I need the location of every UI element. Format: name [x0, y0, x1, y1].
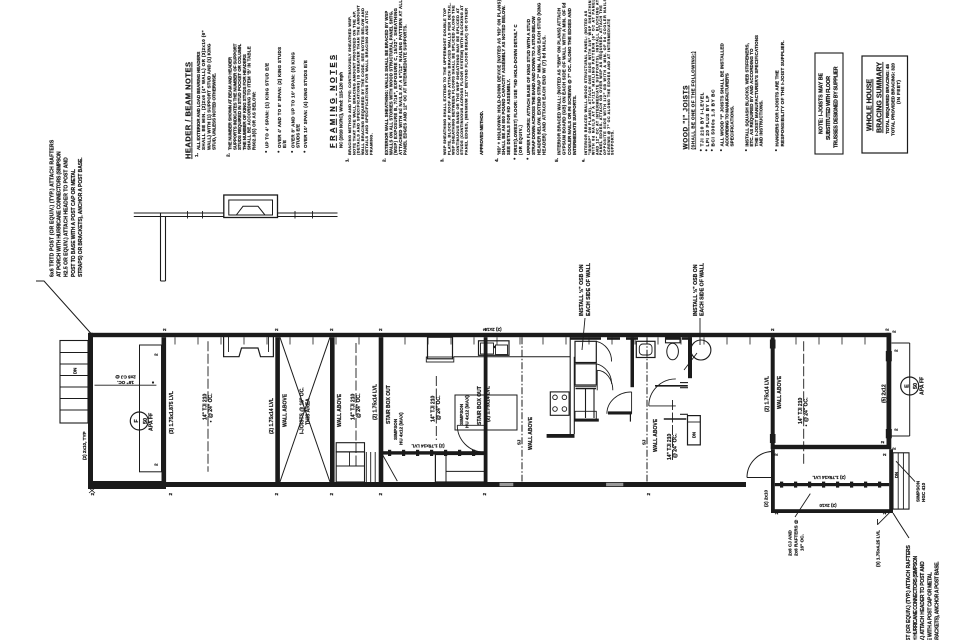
svg-text:STUDS E/E: STUDS E/E: [296, 124, 301, 148]
svg-text:2: 2: [162, 328, 167, 331]
svg-text:SIMPSON: SIMPSON: [393, 418, 398, 440]
wire: leader from left annotation to plan corner: [36, 281, 91, 334]
svg-text:TJI 210 BY I-LEVEL: TJI 210 BY I-LEVEL: [699, 92, 704, 146]
X brace: I-joist area cross: [280, 337, 330, 482]
detail: entry box with trapezoid: [224, 195, 278, 218]
svg-text:2: 2: [770, 441, 775, 444]
svg-text:(2) 1.75x14 LVL: (2) 1.75x14 LVL: [486, 386, 492, 422]
bath: toilet: [666, 338, 681, 343]
svg-text:@ 24" OC.: @ 24" OC.: [804, 397, 810, 422]
svg-text:2x6 RAFTERS @: 2x6 RAFTERS @: [794, 519, 799, 556]
centerline: SJ wall above (kitchen): [521, 337, 523, 481]
door arc into hall at stair: [457, 425, 484, 452]
svg-text:WOOD "I" JOISTS: WOOD "I" JOISTS: [683, 85, 690, 150]
svg-text:SEE DETAILS FOR HD ASSEMBLY.: SEE DETAILS FOR HD ASSEMBLY.: [506, 79, 511, 155]
detail: tick marks: [187, 211, 189, 219]
svg-text:HU 4x12 (MAX): HU 4x12 (MAX): [465, 395, 470, 428]
svg-text:6x6 TRTD POST (OR EQUIV.) (TYP: 6x6 TRTD POST (OR EQUIV.) (TYP.) ATTACH …: [50, 139, 56, 277]
hall walls and stubs: [655, 385, 688, 387]
svg-text:2: 2: [885, 328, 890, 331]
svg-text:2: 2: [482, 493, 487, 496]
svg-text:2: 2: [168, 493, 173, 496]
svg-text:SJ: SJ: [517, 439, 522, 445]
svg-text:AND INSTRUCTIONS.: AND INSTRUCTIONS.: [759, 100, 764, 146]
svg-text:UP TO 4' SPAN: (1) KING STUD E: UP TO 4' SPAN: (1) KING STUD E/E: [265, 63, 270, 148]
svg-text:2: 2: [894, 349, 899, 352]
wall: left exterior wall: [88, 333, 93, 489]
svg-text:2: 2: [646, 493, 651, 496]
svg-text:(2) 1.75x14 LVL: (2) 1.75x14 LVL: [373, 384, 379, 420]
svg-text:2: 2: [154, 463, 159, 466]
centerline: joists at stair box: [435, 376, 437, 440]
porch: left edge: [771, 449, 775, 513]
svg-text:16" OC.: 16" OC.: [800, 534, 805, 551]
centerline: bedroom joists: [803, 341, 805, 465]
svg-text:(2) 2x10, TYP: (2) 2x10, TYP: [82, 431, 87, 460]
note: header bullets: [265, 151, 267, 153]
svg-text:WALL ABOVE: WALL ABOVE: [653, 418, 659, 452]
svg-text:2: 2: [329, 493, 334, 496]
svg-text:(2) 1.75x14 LVL: (2) 1.75x14 LVL: [411, 444, 444, 449]
svg-text:WALL ABOVE: WALL ABOVE: [337, 393, 343, 427]
wall: powder room walls: [576, 388, 597, 390]
svg-text:WALL ABOVE: WALL ABOVE: [777, 375, 783, 409]
stair: treads: [365, 452, 367, 482]
svg-text:AT PORCH WITH HURRICANE CONNEC: AT PORCH WITH HURRICANE CONNECTORS (SIMP…: [913, 556, 919, 640]
svg-text:APPROVED METHOD.: APPROVED METHOD.: [479, 111, 484, 155]
bedroom door arc: [747, 452, 773, 478]
svg-text:TOTAL REQUIRED BRACING: 45: TOTAL REQUIRED BRACING: 45: [885, 64, 890, 134]
stud ticks along top wall: [174, 337, 176, 344]
porch: right edge: [889, 449, 893, 513]
svg-text:(SHALL BE ONE OF THE FOLLOWING: (SHALL BE ONE OF THE FOLLOWING:): [691, 51, 696, 149]
door arc: hall to bedroom: [649, 379, 676, 406]
svg-text:E: E: [904, 384, 910, 388]
svg-text:5.: 5.: [554, 158, 560, 162]
door arcs near powder room: [597, 370, 613, 390]
porch: bottom edge: [771, 509, 893, 513]
svg-text:@ 24" OC.: @ 24" OC.: [436, 395, 442, 420]
svg-text:2: 2: [378, 328, 383, 331]
svg-text:1.: 1.: [345, 158, 350, 162]
svg-text:SIMPSON: SIMPSON: [916, 480, 921, 502]
braced panel rect (left room): [140, 345, 162, 472]
svg-text:SUBSTITUTED WITH FLOOR: SUBSTITUTED WITH FLOOR: [826, 76, 832, 140]
porch: header beam with blocking: [775, 483, 889, 486]
svg-text:INTERMEDIATE SUPPORTS.: INTERMEDIATE SUPPORTS.: [572, 95, 577, 155]
centerline: SJ wall above (hall): [646, 337, 648, 481]
svg-text:HEADER) AND ATTACH EACH END W/: HEADER) AND ATTACH EACH END W/ (7) 8d NA…: [542, 35, 547, 155]
wall: bedroom bottom wall: [771, 445, 891, 449]
svg-text:3.: 3.: [440, 158, 445, 162]
svg-text:(2) 1.75x14 LVL: (2) 1.75x14 LVL: [765, 376, 771, 412]
detail: porch roof plan double line: [134, 212, 338, 214]
svg-text:POST TO BASE WITH A POST CAP O: POST TO BASE WITH A POST CAP OR METAL: [927, 572, 933, 640]
svg-text:2: 2: [274, 493, 279, 496]
bath: round lavatory: [691, 340, 711, 360]
svg-text:THIS AREA: THIS AREA: [306, 398, 312, 425]
svg-text:H2.5 OR EQUIV.) ATTACH HEADER: H2.5 OR EQUIV.) ATTACH HEADER TO POST AN…: [920, 561, 926, 640]
svg-text:HU 4x12 (MAX): HU 4x12 (MAX): [399, 412, 404, 445]
svg-text:SIMPSON: SIMPSON: [459, 403, 464, 425]
svg-text:2: 2: [90, 493, 95, 496]
shelf stub bottom left of laundry: [575, 411, 596, 419]
svg-text:2: 2: [880, 441, 885, 444]
svg-text:HANGERS FOR I-JOISTS ARE THE: HANGERS FOR I-JOISTS ARE THE: [775, 70, 780, 146]
kitchen: peninsula counter: [569, 337, 571, 435]
svg-text:4.: 4.: [494, 158, 499, 162]
svg-text:WHOLE HOUSE: WHOLE HOUSE: [867, 79, 874, 131]
utility boxes right of stair: [435, 455, 485, 483]
svg-text:2: 2: [378, 493, 383, 496]
wall: bottom exterior wall: [88, 482, 746, 487]
wall: interior wall W2: [275, 337, 280, 482]
wall: interior wall W4: [379, 337, 384, 482]
svg-text:NC (2010 NCRC), Wind: 115-120: NC (2010 NCRC), Wind: 115-120 mph: [339, 72, 344, 148]
svg-text:2: 2: [770, 328, 775, 331]
wall: bedroom beam wall W6: [771, 337, 775, 449]
svg-text:(2) 2x10: (2) 2x10: [819, 503, 837, 508]
kitchen: fridge box: [428, 337, 453, 359]
svg-text:DN: DN: [692, 432, 697, 438]
svg-text:NOTE: I-JOISTS MAY BE: NOTE: I-JOISTS MAY BE: [819, 72, 825, 134]
hold-down circle F/50: [130, 412, 148, 430]
svg-text:2: 2: [154, 353, 159, 356]
svg-text:SUPPORTS.: SUPPORTS.: [611, 131, 615, 156]
svg-text:WALL ABOVE: WALL ABOVE: [528, 416, 534, 450]
svg-text:RESPONSIBILITY OF THE I-JOIST: RESPONSIBILITY OF THE I-JOIST SUPPLIER.: [780, 40, 785, 146]
svg-text:(3) 1.75x4.25 LVL: (3) 1.75x4.25 LVL: [876, 530, 881, 567]
svg-text:LPI 20 PLUS BY LP: LPI 20 PLUS BY LP: [705, 96, 710, 147]
svg-text:BCI 5000s 1.8 BY BC: BCI 5000s 1.8 BY BC: [710, 89, 715, 147]
svg-text:DN: DN: [73, 368, 78, 374]
panel marks on right wall: [886, 351, 892, 361]
svg-text:(2) 2x10: (2) 2x10: [764, 489, 769, 507]
fireplace notch on top wall: [224, 337, 274, 357]
svg-text:H2.5 OR EQUIV.) ATTACH HEADER: H2.5 OR EQUIV.) ATTACH HEADER TO POST AN…: [64, 157, 70, 277]
svg-text:2: 2: [892, 330, 897, 333]
svg-text:PANEL EDGES AND 12" OC AT INTE: PANEL EDGES AND 12" OC AT INTERMEDIATE S…: [402, 24, 407, 155]
corner x marks: [89, 488, 95, 493]
svg-text:2: 2: [774, 512, 779, 515]
bracket: braced panel indicator right: [909, 343, 911, 436]
svg-text:2.: 2.: [382, 158, 387, 162]
svg-text:(5) 2x12: (5) 2x12: [882, 384, 888, 403]
wall: interior wall W3: [330, 337, 335, 482]
svg-text:SJ: SJ: [642, 439, 647, 445]
svg-text:DN: DN: [894, 472, 899, 478]
svg-text:2x6 CJ AND: 2x6 CJ AND: [788, 529, 793, 556]
svg-text:2: 2: [774, 453, 779, 456]
svg-text:(2) 1.75x14 LVL: (2) 1.75x14 LVL: [269, 398, 275, 434]
svg-text:(3) 1.75x1.875 LVL: (3) 1.75x1.875 LVL: [169, 391, 175, 434]
svg-text:2: 2: [329, 328, 334, 331]
steps: left porch stairs: [60, 341, 88, 424]
svg-text:2: 2: [482, 328, 487, 331]
wall: interior wall W5: [484, 337, 488, 482]
centerline: bath joists: [672, 400, 674, 462]
note box: i-joist substitution: [815, 53, 843, 154]
svg-text:INSTALL ½" OSB ON: INSTALL ½" OSB ON: [692, 264, 699, 316]
svg-text:STAIR BOX OUT: STAIR BOX OUT: [386, 385, 392, 424]
stair: up arrow: [381, 452, 397, 481]
svg-text:TOTAL PROVIDED BRACING: 320: TOTAL PROVIDED BRACING: 320: [890, 63, 895, 136]
stair box out rect: [455, 395, 517, 430]
centerline: stair room joists: [355, 343, 357, 468]
stair: landing boxes: [336, 443, 364, 452]
svg-text:6.: 6.: [581, 159, 586, 162]
svg-text:2: 2: [892, 447, 897, 450]
svg-text:(OR EQUIV.): (OR EQUIV.): [518, 125, 523, 155]
kitchen: sink: [479, 341, 510, 356]
water heater box: [688, 416, 701, 445]
lintels on top wall at bath/laundry: [570, 337, 601, 340]
svg-text:POST TO BASE WITH A POST CAP O: POST TO BASE WITH A POST CAP OR METAL: [71, 169, 77, 277]
svg-text:2x6 CJ @: 2x6 CJ @: [115, 375, 136, 380]
window: bottom wall openings (grey): [500, 483, 514, 486]
svg-text:APA FF: APA FF: [920, 377, 926, 395]
svg-text:BRACING SUMMARY: BRACING SUMMARY: [877, 62, 884, 133]
svg-text:50: 50: [913, 383, 919, 389]
svg-text:2.: 2.: [226, 153, 232, 157]
svg-text:INSTALL ½" OSB ON: INSTALL ½" OSB ON: [578, 264, 585, 316]
svg-text:OVER 10' SPAN: (4) KING STUDS: OVER 10' SPAN: (4) KING STUDS E/E: [303, 60, 308, 148]
svg-text:STUD, UNLESS NOTED OTHERWISE.: STUD, UNLESS NOTED OTHERWISE.: [212, 73, 217, 150]
svg-text:(2) 1.75x14 LVL: (2) 1.75x14 LVL: [812, 475, 845, 480]
svg-text:EACH SIDE OF WALL: EACH SIDE OF WALL: [700, 262, 706, 316]
svg-text:16" OC.: 16" OC.: [117, 380, 134, 385]
wall: right exterior wall (bedroom): [887, 333, 892, 449]
beam: stair header with blocking: [381, 451, 488, 454]
svg-text:1.: 1.: [194, 152, 200, 157]
svg-text:EACH SIDE OF WALL: EACH SIDE OF WALL: [586, 262, 592, 316]
svg-text:2: 2: [882, 453, 887, 456]
svg-text:@ 24" OC.: @ 24" OC.: [673, 433, 679, 458]
svg-text:OVER 4' AND TO 8' SPAN: (2) KI: OVER 4' AND TO 8' SPAN: (2) KING STUDS: [277, 47, 282, 148]
svg-text:6x6 TRTD POST (OR EQUIV.) (TYP: 6x6 TRTD POST (OR EQUIV.) (TYP.) ATTACH …: [906, 544, 912, 640]
svg-text:PANEL EDGES, (MINIMUM 12" BEYO: PANEL EDGES, (MINIMUM 12" BEYOND FLOOR B…: [464, 8, 469, 155]
svg-text:R602.3(5) OR AS BELOW:: R602.3(5) OR AS BELOW:: [252, 91, 257, 150]
svg-text:APA FF: APA FF: [149, 413, 155, 431]
wire: leader to bottom-right annotation: [893, 513, 909, 538]
wall: interior wall W1: [162, 337, 167, 482]
bath: vanity sink: [636, 341, 655, 357]
svg-text:STAIR BOX OUT: STAIR BOX OUT: [477, 386, 483, 425]
svg-text:(IN FEET): (IN FEET): [896, 80, 901, 104]
porch: right steps: [893, 453, 909, 509]
svg-text:SPECIFICATIONS.: SPECIFICATIONS.: [730, 106, 735, 147]
svg-text:E/E: E/E: [282, 140, 287, 148]
svg-text:2: 2: [894, 428, 899, 431]
centerline: joists left room 2: [207, 341, 209, 472]
svg-text:STRAPS) OR BRACKETS), ANCHOR A: STRAPS) OR BRACKETS), ANCHOR A POST BASE…: [78, 157, 84, 277]
title box: whole house bracing summary: [862, 56, 908, 153]
svg-text:@ 24" OC.: @ 24" OC.: [356, 393, 362, 418]
svg-text:HEADER / BEAM NOTES: HEADER / BEAM NOTES: [184, 62, 193, 159]
svg-text:STRAPS) OR BRACKETS), ANCHOR A: STRAPS) OR BRACKETS), ANCHOR A POST BASE…: [934, 561, 940, 640]
wall: top exterior wall: [89, 333, 890, 337]
laundry: boxes with arcs: [575, 341, 596, 362]
svg-text:2: 2: [274, 328, 279, 331]
svg-text:WALL ABOVE: WALL ABOVE: [283, 393, 289, 427]
wall: bath wall: [631, 337, 635, 387]
svg-text:HGC 410: HGC 410: [921, 482, 926, 502]
svg-text:TRUSSES DESIGNED BY SUPPLIER: TRUSSES DESIGNED BY SUPPLIER: [834, 66, 840, 148]
kitchen: counter line along top wall: [454, 356, 570, 358]
svg-text:@ 24" OC.: @ 24" OC.: [208, 393, 214, 418]
svg-text:AT PORCH WITH HURRICANE CONNEC: AT PORCH WITH HURRICANE CONNECTORS (SIMP…: [57, 151, 63, 277]
detail: porch roof wall down: [160, 213, 162, 281]
svg-text:2: 2: [882, 512, 887, 515]
svg-text:FRAMING.: FRAMING.: [369, 133, 374, 155]
kitchen: range with burners: [550, 392, 569, 415]
hold-down circle E/50: [901, 377, 919, 395]
